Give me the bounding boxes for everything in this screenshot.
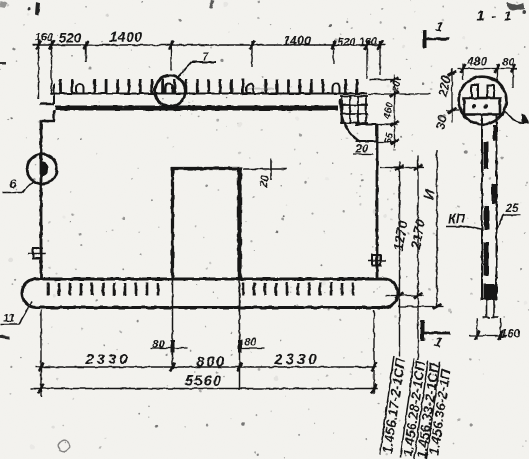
- svg-text:КП: КП: [448, 212, 466, 226]
- svg-text:520: 520: [337, 37, 356, 49]
- svg-text:80: 80: [152, 339, 165, 351]
- svg-text:5560: 5560: [185, 373, 222, 390]
- svg-text:2330: 2330: [273, 351, 319, 368]
- svg-text:480: 480: [466, 55, 487, 69]
- svg-text:800: 800: [196, 354, 226, 371]
- svg-text:160: 160: [35, 32, 54, 44]
- svg-text:80: 80: [502, 57, 515, 69]
- svg-text:11: 11: [3, 313, 14, 325]
- svg-text:6: 6: [10, 177, 17, 191]
- svg-text:160: 160: [501, 329, 521, 341]
- svg-text:1400: 1400: [283, 34, 311, 48]
- svg-text:1400: 1400: [109, 29, 142, 45]
- svg-text:1 - 1: 1 - 1: [476, 9, 513, 24]
- svg-text:25: 25: [505, 203, 519, 215]
- svg-text:80: 80: [244, 337, 257, 349]
- svg-text:160: 160: [359, 36, 378, 48]
- svg-text:2330: 2330: [84, 351, 130, 368]
- svg-text:520: 520: [59, 31, 82, 46]
